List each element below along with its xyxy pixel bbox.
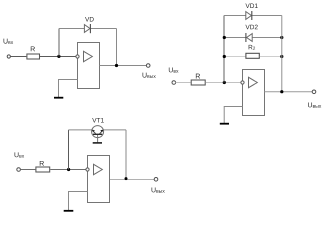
wire input terminal to R (circuit 3): [20, 169, 35, 171]
node C (circuit 2 summing junction): [223, 81, 226, 84]
wire feedback right vertical (circuit 2): [281, 16, 283, 92]
wire VD2 branch (circuit 2): [224, 37, 282, 39]
output terminal (circuit 3): [154, 178, 158, 182]
label R (circuit 2): [196, 74, 200, 79]
resistor R2 (circuit 2): [246, 53, 259, 58]
wire input terminal to R: [10, 56, 26, 58]
wire feedback right vertical (circuit 3): [125, 130, 127, 179]
wire R to op-amp inverting input (circuit 3): [50, 169, 86, 171]
node D (left vertical / VD2 junction): [223, 36, 226, 39]
ground (transistor base, circuit 3): [93, 142, 102, 144]
input terminal (circuit 2): [172, 81, 176, 85]
input terminal (circuit 3): [17, 168, 21, 172]
label R (circuit 3): [40, 161, 44, 166]
label Uvyh (circuit 2 output net): [308, 102, 321, 107]
output terminal (circuit 2): [312, 90, 316, 94]
node G (right vertical / R2 junction): [280, 55, 283, 58]
node F (left vertical / R2 junction): [223, 55, 226, 58]
resistor R (circuit 3): [36, 167, 50, 172]
wire feedback left vertical (circuit 3): [68, 130, 70, 170]
node J (circuit 3 output junction): [125, 177, 128, 180]
wire diode top (circuit 1): [59, 28, 117, 30]
node E (right vertical / VD2 junction): [280, 36, 283, 39]
wire feedback left vertical (circuit 2): [223, 16, 225, 83]
resistor R (circuit 1): [27, 54, 40, 59]
wire input terminal to R (circuit 2): [176, 82, 191, 84]
wire non-inverting input to ground (circuit 2): [224, 107, 242, 124]
label Uvx (circuit 3 input net): [15, 152, 25, 157]
diode VD: [84, 24, 90, 33]
wire R to op-amp inverting input (circuit 2): [206, 82, 241, 84]
wire VD1 branch top (circuit 2): [224, 15, 282, 17]
label R (circuit 1): [31, 46, 35, 51]
diode VD2: [246, 33, 252, 42]
wire R2 branch right (circuit 2): [260, 56, 282, 58]
label VD2: [245, 25, 257, 30]
op-amp U3 (circuit 3): [86, 156, 110, 203]
output terminal (circuit 1): [146, 64, 150, 68]
transistor VT1: [92, 126, 104, 143]
wire R2 branch left (circuit 2): [224, 56, 245, 58]
node H (circuit 2 output junction): [280, 90, 283, 93]
input terminal (circuit 1): [7, 55, 10, 58]
op-amp U2 (circuit 2): [241, 70, 265, 116]
node B (circuit 1 output junction): [115, 64, 118, 67]
diode VD1: [246, 11, 252, 20]
wire non-inverting input to ground (circuit 1): [59, 80, 78, 98]
label Uvyh (circuit 1 output net): [143, 73, 156, 78]
ground (circuit 2): [220, 123, 229, 125]
wire feedback top left (circuit 3): [69, 129, 92, 131]
wire output (circuit 3): [110, 179, 154, 181]
wire output (circuit 1): [100, 65, 147, 67]
wire non-inverting input to ground (circuit 3): [69, 192, 88, 211]
label VD: [85, 17, 94, 21]
label Uvx (circuit 2 input net): [169, 67, 179, 72]
ground (circuit 1): [54, 97, 63, 99]
wire feedback left vertical (circuit 1): [58, 29, 60, 57]
label VT1: [92, 118, 104, 122]
wire R to op-amp inverting input: [40, 56, 76, 58]
label R2: [249, 45, 255, 50]
wire feedback right vertical (circuit 1): [116, 29, 118, 66]
ground (circuit 3): [64, 210, 74, 212]
node I (circuit 3 summing junction): [67, 168, 70, 171]
node A (circuit 1 summing junction): [57, 55, 60, 58]
wire feedback top right (circuit 3): [104, 129, 127, 131]
label VD1: [245, 4, 257, 8]
label Uvyh (circuit 3 output net): [152, 187, 165, 192]
label Uvx (circuit 1 input net): [4, 39, 14, 44]
op-amp U1 (circuit 1): [76, 43, 100, 89]
resistor R (circuit 2): [191, 80, 205, 85]
wire output (circuit 2): [265, 91, 313, 93]
